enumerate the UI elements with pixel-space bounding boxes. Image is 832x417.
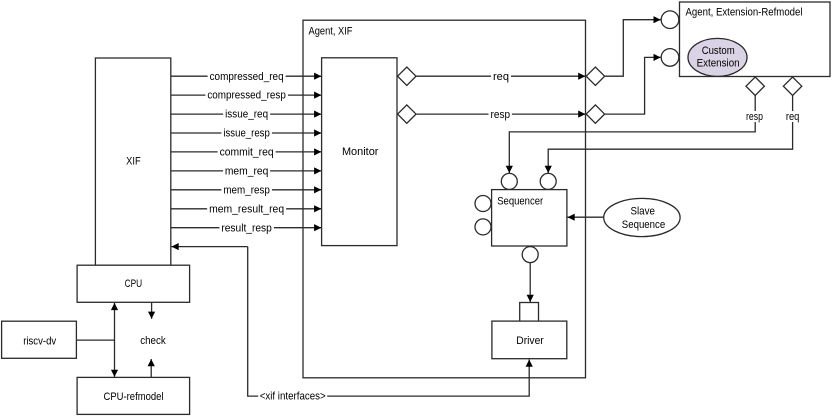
port circle sequencer top 1 bbox=[501, 173, 517, 189]
svg-text:result_resp: result_resp bbox=[221, 222, 272, 234]
wire CPU down arrow to check bbox=[151, 303, 153, 319]
svg-text:Driver: Driver bbox=[516, 335, 544, 347]
svg-text:mem_result_req: mem_result_req bbox=[209, 203, 284, 215]
wire return into XIF bbox=[172, 246, 248, 248]
label compressed_resp bbox=[205, 90, 288, 102]
ellipse Slave Sequence bbox=[604, 198, 680, 236]
diamond on agent edge req bbox=[586, 67, 604, 85]
svg-text:Monitor: Monitor bbox=[342, 146, 379, 158]
svg-text:XIF: XIF bbox=[126, 156, 141, 168]
svg-text:mem_req: mem_req bbox=[225, 166, 269, 178]
ellipse Custom Extension bbox=[688, 38, 747, 76]
svg-text:<xif interfaces>: <xif interfaces> bbox=[260, 391, 326, 403]
svg-text:CPU: CPU bbox=[125, 278, 143, 290]
label req bbox=[491, 71, 511, 83]
diamond req below refmodel bbox=[783, 77, 801, 95]
svg-text:Extension: Extension bbox=[697, 58, 740, 70]
svg-text:resp: resp bbox=[491, 109, 511, 121]
svg-text:compressed_req: compressed_req bbox=[210, 71, 284, 83]
label compressed_req bbox=[208, 71, 286, 83]
svg-text:riscv-dv: riscv-dv bbox=[23, 336, 56, 348]
port circle sequencer bottom bbox=[522, 247, 538, 263]
label mem_result_req bbox=[207, 203, 286, 215]
svg-text:req: req bbox=[493, 71, 509, 83]
block Monitor bbox=[322, 58, 397, 246]
port circle sequencer left 1 bbox=[475, 196, 491, 212]
block Agent, XIF bbox=[303, 20, 586, 378]
wire mem_req bbox=[171, 170, 321, 172]
svg-text:resp: resp bbox=[746, 111, 763, 123]
port circle sequencer left 2 bbox=[475, 219, 491, 235]
svg-text:Slave: Slave bbox=[630, 205, 655, 217]
svg-text:check: check bbox=[140, 335, 166, 347]
wire mem_resp bbox=[171, 189, 321, 191]
svg-text:compressed_resp: compressed_resp bbox=[207, 90, 286, 102]
label result_resp bbox=[219, 222, 274, 234]
block CPU bbox=[77, 265, 190, 302]
port circle sequencer top 2 bbox=[540, 173, 556, 189]
block CPU-refmodel bbox=[77, 377, 190, 414]
wire resp diamond to sequencer circle bbox=[509, 95, 755, 173]
svg-text:issue_req: issue_req bbox=[225, 109, 268, 121]
block driver port square bbox=[520, 303, 539, 322]
svg-text:Custom: Custom bbox=[702, 45, 735, 57]
label issue_req bbox=[223, 109, 270, 121]
wire issue_req bbox=[171, 113, 321, 115]
label commit_req bbox=[218, 146, 276, 158]
svg-text:issue_resp: issue_resp bbox=[223, 128, 270, 140]
svg-text:commit_req: commit_req bbox=[220, 147, 274, 159]
port circle refmodel 1 bbox=[661, 11, 679, 29]
svg-text:Agent, XIF: Agent, XIF bbox=[309, 26, 353, 38]
wire riscv-dv to junction bbox=[76, 339, 114, 341]
wire compressed_resp bbox=[171, 94, 321, 96]
diamond on agent edge resp bbox=[586, 105, 604, 123]
wire req diamond to sequencer circle bbox=[548, 95, 792, 173]
port circle refmodel 2 bbox=[661, 49, 679, 67]
wire CPU to CPU-refmodel double arrow bbox=[114, 303, 116, 377]
wire req monitor to agent edge bbox=[416, 75, 585, 77]
svg-text:Agent, Extension-Refmodel: Agent, Extension-Refmodel bbox=[686, 7, 803, 19]
wire CPU-refmodel up arrow to check bbox=[150, 359, 152, 377]
wire compressed_req bbox=[171, 75, 321, 77]
wire issue_resp bbox=[171, 132, 321, 134]
svg-text:Sequencer: Sequencer bbox=[497, 196, 543, 208]
block Sequencer bbox=[492, 190, 567, 246]
wire xif interfaces run bbox=[248, 247, 530, 397]
diamond resp below refmodel bbox=[746, 77, 764, 95]
svg-text:Sequence: Sequence bbox=[622, 219, 665, 231]
label resp below diamond bbox=[744, 111, 765, 123]
wire result_resp bbox=[171, 227, 321, 229]
wire slave sequence to sequencer bbox=[568, 216, 604, 218]
label req below diamond bbox=[785, 111, 801, 123]
label xif interfaces bbox=[258, 391, 327, 403]
block Agent, Extension-Refmodel bbox=[680, 2, 831, 77]
wire resp monitor to agent edge bbox=[416, 113, 585, 115]
label mem_req bbox=[223, 165, 270, 177]
block riscv-dv bbox=[2, 321, 77, 358]
block Driver bbox=[492, 321, 567, 359]
wire agent diamond to refmodel circle 1 bbox=[605, 20, 661, 76]
label issue_resp bbox=[221, 128, 272, 140]
wire commit_req bbox=[171, 151, 321, 153]
diamond on monitor edge resp bbox=[398, 105, 416, 123]
wire mem_result_req bbox=[171, 208, 321, 210]
diamond on monitor edge req bbox=[398, 67, 416, 85]
wire agent diamond to refmodel circle 2 bbox=[605, 57, 661, 114]
label resp bbox=[489, 109, 513, 121]
svg-text:mem_resp: mem_resp bbox=[223, 184, 270, 196]
wire sequencer to driver square bbox=[529, 263, 531, 302]
label mem_resp bbox=[221, 184, 272, 196]
svg-text:req: req bbox=[786, 111, 800, 123]
block XIF bbox=[95, 58, 170, 265]
svg-text:CPU-refmodel: CPU-refmodel bbox=[104, 391, 164, 403]
